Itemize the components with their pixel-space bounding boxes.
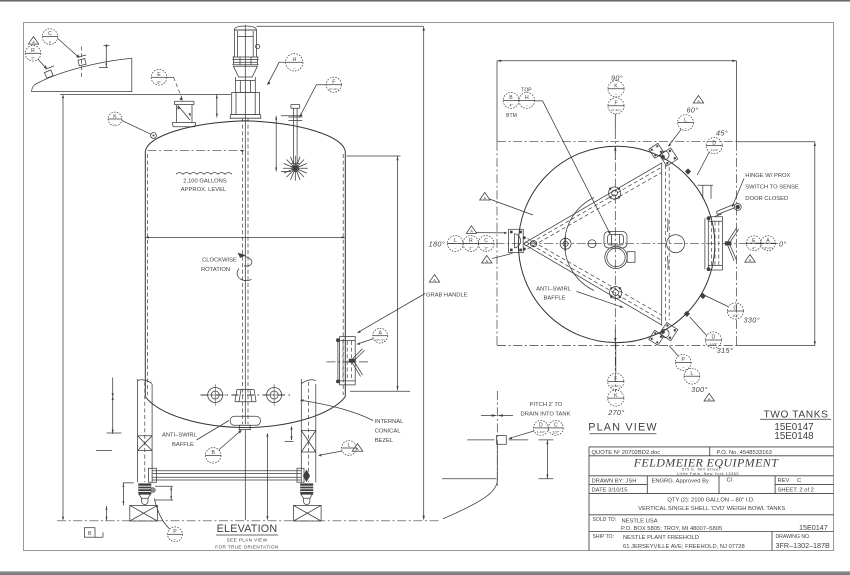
tank diameter dim — [145, 236, 345, 238]
svg-text:6″: 6″ — [157, 80, 161, 85]
pitch dim arrows — [481, 414, 513, 417]
foot dims left — [96, 450, 173, 520]
svg-text:BTM: BTM — [506, 113, 517, 119]
svg-text:HINGE W/ PROX: HINGE W/ PROX — [745, 173, 790, 179]
baffle small dim — [285, 426, 294, 442]
svg-text:F: F — [332, 79, 335, 85]
svg-text:1-1/2″: 1-1/2″ — [710, 148, 718, 152]
baffle diagonal lower — [524, 238, 662, 325]
svg-text:H: H — [292, 57, 296, 63]
balloon K elev — [108, 112, 156, 138]
svg-text:1-1/2″: 1-1/2″ — [537, 430, 545, 434]
svg-text:BAFFLE: BAFFLE — [544, 296, 566, 302]
svg-text:PITCH 2’ TO: PITCH 2’ TO — [530, 402, 563, 408]
bottom head depth dim x112 — [107, 378, 122, 435]
detail nozzle C — [77, 47, 86, 80]
balloon B elev — [205, 430, 241, 463]
180 deg fitting — [509, 229, 526, 252]
boxed B — [84, 528, 103, 538]
svg-text:TOP: TOP — [521, 88, 532, 94]
svg-text:CLOCKWISE: CLOCKWISE — [202, 257, 237, 263]
rotation swirl — [237, 253, 252, 281]
balloon 45 D — [685, 128, 728, 175]
balloon D C pitch — [509, 421, 564, 440]
balloon 180 LRC — [429, 192, 513, 263]
svg-text:C: C — [554, 423, 558, 429]
svg-text:L: L — [684, 117, 687, 123]
hinge door assembly 0deg — [698, 185, 742, 271]
svg-text:15E0148: 15E0148 — [774, 431, 814, 442]
title block outline — [589, 447, 834, 551]
svg-text:ANTI–SWIRL: ANTI–SWIRL — [536, 287, 572, 293]
svg-text:A: A — [708, 396, 711, 401]
anti-swirl baffle part — [230, 416, 260, 429]
svg-text:E: E — [157, 72, 161, 78]
svg-text:A: A — [485, 258, 488, 263]
svg-text:A: A — [470, 229, 473, 234]
center outlet line — [244, 430, 246, 520]
load cell right — [300, 483, 313, 504]
svg-text:D: D — [712, 335, 716, 341]
svg-text:ANTI–SWIRL: ANTI–SWIRL — [162, 433, 198, 439]
circle top arrow tick — [614, 146, 616, 150]
spray pipe dimension — [275, 116, 300, 172]
pitch valve — [467, 436, 528, 445]
svg-text:ELEVATION: ELEVATION — [217, 523, 278, 535]
manway door on shell — [327, 337, 369, 385]
manhole circle right — [667, 235, 685, 253]
svg-text:C: C — [797, 478, 801, 484]
balloon L legs — [318, 441, 363, 457]
svg-text:B: B — [211, 450, 215, 456]
svg-text:G: G — [733, 306, 737, 312]
overall height dim x424 — [257, 26, 425, 520]
spray ball assembly — [283, 105, 308, 181]
svg-text:DRAIN INTO TANK: DRAIN INTO TANK — [521, 411, 571, 417]
svg-text:A: A — [378, 330, 382, 336]
svg-text:A: A — [356, 447, 359, 452]
nozzle E on dome — [172, 101, 196, 127]
tank circle plan — [518, 146, 714, 342]
ground centerline — [57, 520, 441, 522]
plan centerlines — [447, 130, 778, 392]
balloon 0deg E A — [745, 236, 787, 263]
svg-text:ROTATION: ROTATION — [201, 267, 230, 273]
balloon 330 G — [700, 293, 760, 325]
plan dashed box — [497, 142, 816, 346]
svg-text:(2’-1¼): (2’-1¼) — [329, 87, 339, 91]
svg-text:F: F — [614, 101, 617, 107]
balloon 60 L — [668, 95, 704, 146]
svg-text:L: L — [454, 238, 457, 244]
bottom head bolt circles — [201, 384, 291, 405]
svg-text:4″: 4″ — [509, 103, 513, 108]
svg-text:(4″x3″): (4″x3″) — [764, 246, 773, 250]
svg-text:4″: 4″ — [752, 245, 756, 250]
svg-text:K: K — [113, 114, 117, 120]
svg-text:A: A — [749, 257, 752, 262]
internal conical bezel text — [300, 399, 404, 443]
balloon 315 D — [684, 311, 733, 355]
svg-text:K: K — [614, 84, 618, 90]
svg-text:CI: CI — [727, 478, 733, 484]
legs right — [301, 379, 316, 482]
svg-text:D: D — [712, 140, 716, 146]
manway bottom circle — [661, 329, 669, 337]
svg-text:CONICAL: CONICAL — [375, 428, 402, 434]
diamond mark on right leg — [303, 470, 310, 483]
legs left — [138, 379, 153, 482]
manway clamp top large square — [660, 148, 678, 166]
agitator hub bottom — [235, 390, 256, 402]
svg-text:PLAN VIEW: PLAN VIEW — [588, 422, 658, 434]
svg-text:1/2″: 1/2″ — [552, 430, 559, 435]
svg-text:60°: 60° — [686, 105, 698, 114]
dome detail view outline — [32, 58, 132, 91]
balloon 270 F K — [607, 343, 624, 417]
svg-text:15E0147: 15E0147 — [799, 523, 828, 532]
svg-text:E: E — [752, 238, 756, 244]
dome radius dim line — [148, 150, 245, 152]
agitator motor assembly — [230, 26, 262, 118]
plan nozzle on arc — [560, 237, 571, 251]
balloon 90 K — [608, 74, 624, 131]
circle bottom arrow tick — [614, 338, 616, 342]
balloon TOP B H — [503, 88, 535, 119]
svg-text:270°: 270° — [607, 408, 624, 417]
svg-text:SHEET: 2 of 2: SHEET: 2 of 2 — [778, 488, 814, 494]
balloon H elev — [267, 54, 303, 85]
svg-text:APPROX. LEVEL: APPROX. LEVEL — [181, 187, 227, 193]
balloon 300 P — [669, 346, 714, 402]
svg-text:VERTICAL SINGLE SHELL ‘CVD’ WE: VERTICAL SINGLE SHELL ‘CVD’ WEIGH BOWL T… — [638, 506, 785, 512]
svg-text:B: B — [509, 95, 513, 101]
hinge label — [732, 173, 799, 207]
svg-text:A: A — [766, 238, 770, 244]
svg-text:y: y — [49, 39, 51, 44]
svg-text:FOR TRUE ORIENTATION: FOR TRUE ORIENTATION — [215, 545, 278, 550]
balloon R — [25, 46, 47, 70]
manway top circle — [661, 151, 669, 159]
svg-text:R: R — [31, 48, 35, 54]
svg-text:D: D — [539, 423, 543, 429]
plan boundary dims — [497, 60, 737, 142]
balloon E elev — [151, 70, 183, 101]
svg-text:F: F — [614, 376, 617, 382]
manway clamp bottom large square — [660, 322, 678, 340]
svg-text:BEZEL: BEZEL — [375, 438, 394, 444]
svg-text:GRAB HANDLE: GRAB HANDLE — [426, 292, 468, 298]
top dome — [145, 121, 345, 152]
svg-text:1/2″: 1/2″ — [732, 313, 739, 318]
svg-text:SEE PLAN VIEW: SEE PLAN VIEW — [227, 538, 268, 543]
svg-text:3″: 3″ — [484, 246, 488, 251]
svg-text:61 JERSEYVILLE AVE; FREEHOLD,: 61 JERSEYVILLE AVE; FREEHOLD, NJ 07728 — [623, 544, 745, 550]
bottom dish — [145, 397, 345, 428]
svg-text:P: P — [173, 529, 177, 535]
svg-text:3FR–1302–187B: 3FR–1302–187B — [776, 541, 831, 550]
svg-text:(4″x 3″): (4″x 3″) — [375, 338, 385, 342]
svg-text:DOOR CLOSED: DOOR CLOSED — [745, 196, 788, 202]
left height dim x63 — [60, 94, 231, 520]
svg-text:C: C — [48, 31, 52, 37]
balloon A door — [357, 328, 388, 345]
svg-text:B: B — [88, 531, 92, 537]
bottom window bar — [0, 571, 850, 572]
right dim x397 shell height — [347, 156, 411, 391]
svg-text:TWO TANKS: TWO TANKS — [763, 410, 828, 421]
pitch vertical dim — [539, 440, 554, 479]
svg-text:(2’-1¼): (2’-1¼) — [611, 108, 621, 112]
svg-text:(2’-1¼): (2’-1¼) — [611, 384, 621, 388]
svg-text:R: R — [469, 238, 473, 244]
svg-text:A: A — [433, 277, 436, 282]
svg-text:330°: 330° — [744, 316, 760, 325]
svg-text:SHIP TO:: SHIP TO: — [593, 534, 615, 540]
svg-text:DRAWING NO.: DRAWING NO. — [776, 534, 811, 540]
balloon C/Y — [42, 29, 79, 58]
center agitator hub plan — [604, 232, 635, 269]
spray nozzle top — [609, 187, 621, 199]
svg-text:NESTLE PLANT FREEHOLD: NESTLE PLANT FREEHOLD — [623, 535, 699, 541]
plan small nozzle left — [530, 241, 536, 247]
cross brace rails — [149, 468, 305, 482]
svg-text:315°: 315° — [717, 346, 733, 355]
floor pad left — [130, 505, 158, 521]
svg-text:300°: 300° — [691, 385, 707, 394]
plan nozzle small mid — [587, 240, 597, 248]
balloon F elev — [299, 77, 341, 117]
agitator shaft — [243, 25, 248, 424]
leaders 180 — [476, 199, 533, 234]
manway clamp bottom small square — [649, 330, 664, 345]
svg-text:INTERNAL: INTERNAL — [375, 419, 404, 425]
svg-text:DATE 3/10/15: DATE 3/10/15 — [592, 487, 628, 493]
level wavy line — [176, 173, 232, 175]
triangle A detail — [28, 37, 38, 45]
detail nozzle R — [44, 66, 54, 78]
svg-text:2″: 2″ — [31, 56, 35, 61]
pitch pipe curve — [442, 444, 497, 519]
svg-text:REV: REV — [778, 478, 790, 484]
balloon P foot — [154, 499, 182, 542]
floor pad right — [294, 505, 322, 521]
svg-text:C: C — [484, 238, 488, 244]
svg-text:0°: 0° — [779, 239, 787, 248]
top window hairline — [0, 0, 850, 1]
manway clamp top small square — [649, 143, 664, 158]
baffle height dim — [266, 433, 268, 520]
svg-text:A: A — [483, 195, 486, 200]
pitch centerline — [496, 391, 498, 486]
svg-text:A: A — [697, 98, 700, 103]
svg-text:K: K — [614, 393, 618, 399]
svg-text:2″: 2″ — [469, 246, 473, 251]
anti-swirl text elev — [162, 421, 229, 449]
svg-text:ENGRG. Approved By: ENGRG. Approved By — [652, 478, 709, 484]
svg-text:L: L — [690, 371, 693, 377]
svg-text:A: A — [32, 39, 35, 44]
anti-swirl label plan — [536, 287, 623, 308]
svg-text:P.O. BOX 5805; TROY, MI 48007: P.O. BOX 5805; TROY, MI 48007–5805 — [621, 526, 722, 532]
svg-text:180°: 180° — [429, 240, 445, 249]
load cell left — [138, 483, 151, 504]
svg-text:P: P — [681, 357, 685, 363]
svg-text:SWITCH TO SENSE: SWITCH TO SENSE — [745, 185, 799, 191]
svg-text:45°: 45° — [716, 128, 728, 137]
inner radius arcs — [565, 198, 668, 291]
spray nozzle bottom — [610, 287, 622, 299]
detail dimension — [99, 44, 110, 68]
baffle diagonal upper — [524, 163, 662, 249]
svg-text:DRAWN BY: JSH: DRAWN BY: JSH — [592, 478, 637, 484]
leader from H to center — [535, 101, 611, 235]
tank shell — [145, 121, 345, 428]
svg-text:SOLD TO:: SOLD TO: — [593, 517, 617, 523]
svg-text:NESTLE USA: NESTLE USA — [622, 518, 658, 524]
svg-text:BAFFLE: BAFFLE — [172, 442, 194, 448]
baffle chord verticals — [662, 163, 670, 326]
svg-text:Little Falls, New York 13365: Little Falls, New York 13365 — [677, 471, 739, 476]
svg-text:L: L — [347, 443, 350, 449]
svg-text:H: H — [525, 95, 529, 101]
svg-text:QTY (2): 2100 GALLON – 80″ I.: QTY (2): 2100 GALLON – 80″ I.D. — [667, 498, 755, 504]
svg-text:2,100 GALLONS: 2,100 GALLONS — [183, 178, 227, 184]
grab handle label — [357, 275, 468, 334]
motor stool dim x217 — [216, 94, 218, 117]
